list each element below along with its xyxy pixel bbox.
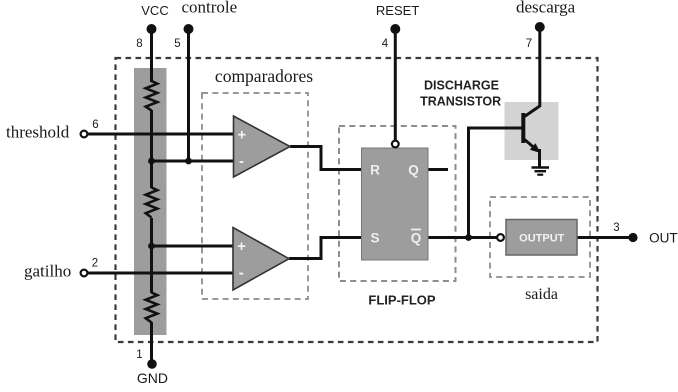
svg-text:3: 3 (613, 222, 619, 234)
svg-text:gatilho: gatilho (24, 262, 71, 281)
svg-text:1: 1 (136, 349, 142, 361)
svg-text:GND: GND (137, 370, 168, 386)
svg-text:TRANSISTOR: TRANSISTOR (420, 95, 501, 109)
svg-text:2: 2 (92, 258, 98, 270)
svg-text:Q: Q (411, 231, 422, 246)
svg-text:OUTPUT: OUTPUT (519, 233, 565, 245)
svg-text:Q: Q (408, 163, 419, 178)
svg-text:8: 8 (136, 38, 142, 50)
svg-text:RESET: RESET (376, 3, 419, 18)
svg-text:+: + (237, 238, 246, 255)
svg-text:5: 5 (174, 38, 180, 50)
svg-text:VCC: VCC (141, 3, 168, 18)
svg-text:saida: saida (525, 286, 558, 303)
svg-text:OUT: OUT (649, 231, 678, 246)
svg-text:threshold: threshold (6, 123, 70, 142)
svg-text:DISCHARGE: DISCHARGE (424, 79, 499, 93)
svg-text:S: S (370, 231, 379, 246)
svg-text:FLIP-FLOP: FLIP-FLOP (368, 293, 435, 308)
svg-text:-: - (239, 153, 244, 170)
svg-text:4: 4 (382, 38, 389, 50)
svg-text:6: 6 (92, 119, 98, 131)
svg-text:comparadores: comparadores (215, 66, 313, 86)
svg-text:R: R (370, 163, 380, 178)
svg-text:+: + (237, 127, 246, 144)
svg-text:descarga: descarga (516, 0, 576, 17)
svg-text:7: 7 (526, 38, 532, 50)
svg-text:controle: controle (182, 0, 238, 17)
svg-text:-: - (239, 264, 244, 281)
